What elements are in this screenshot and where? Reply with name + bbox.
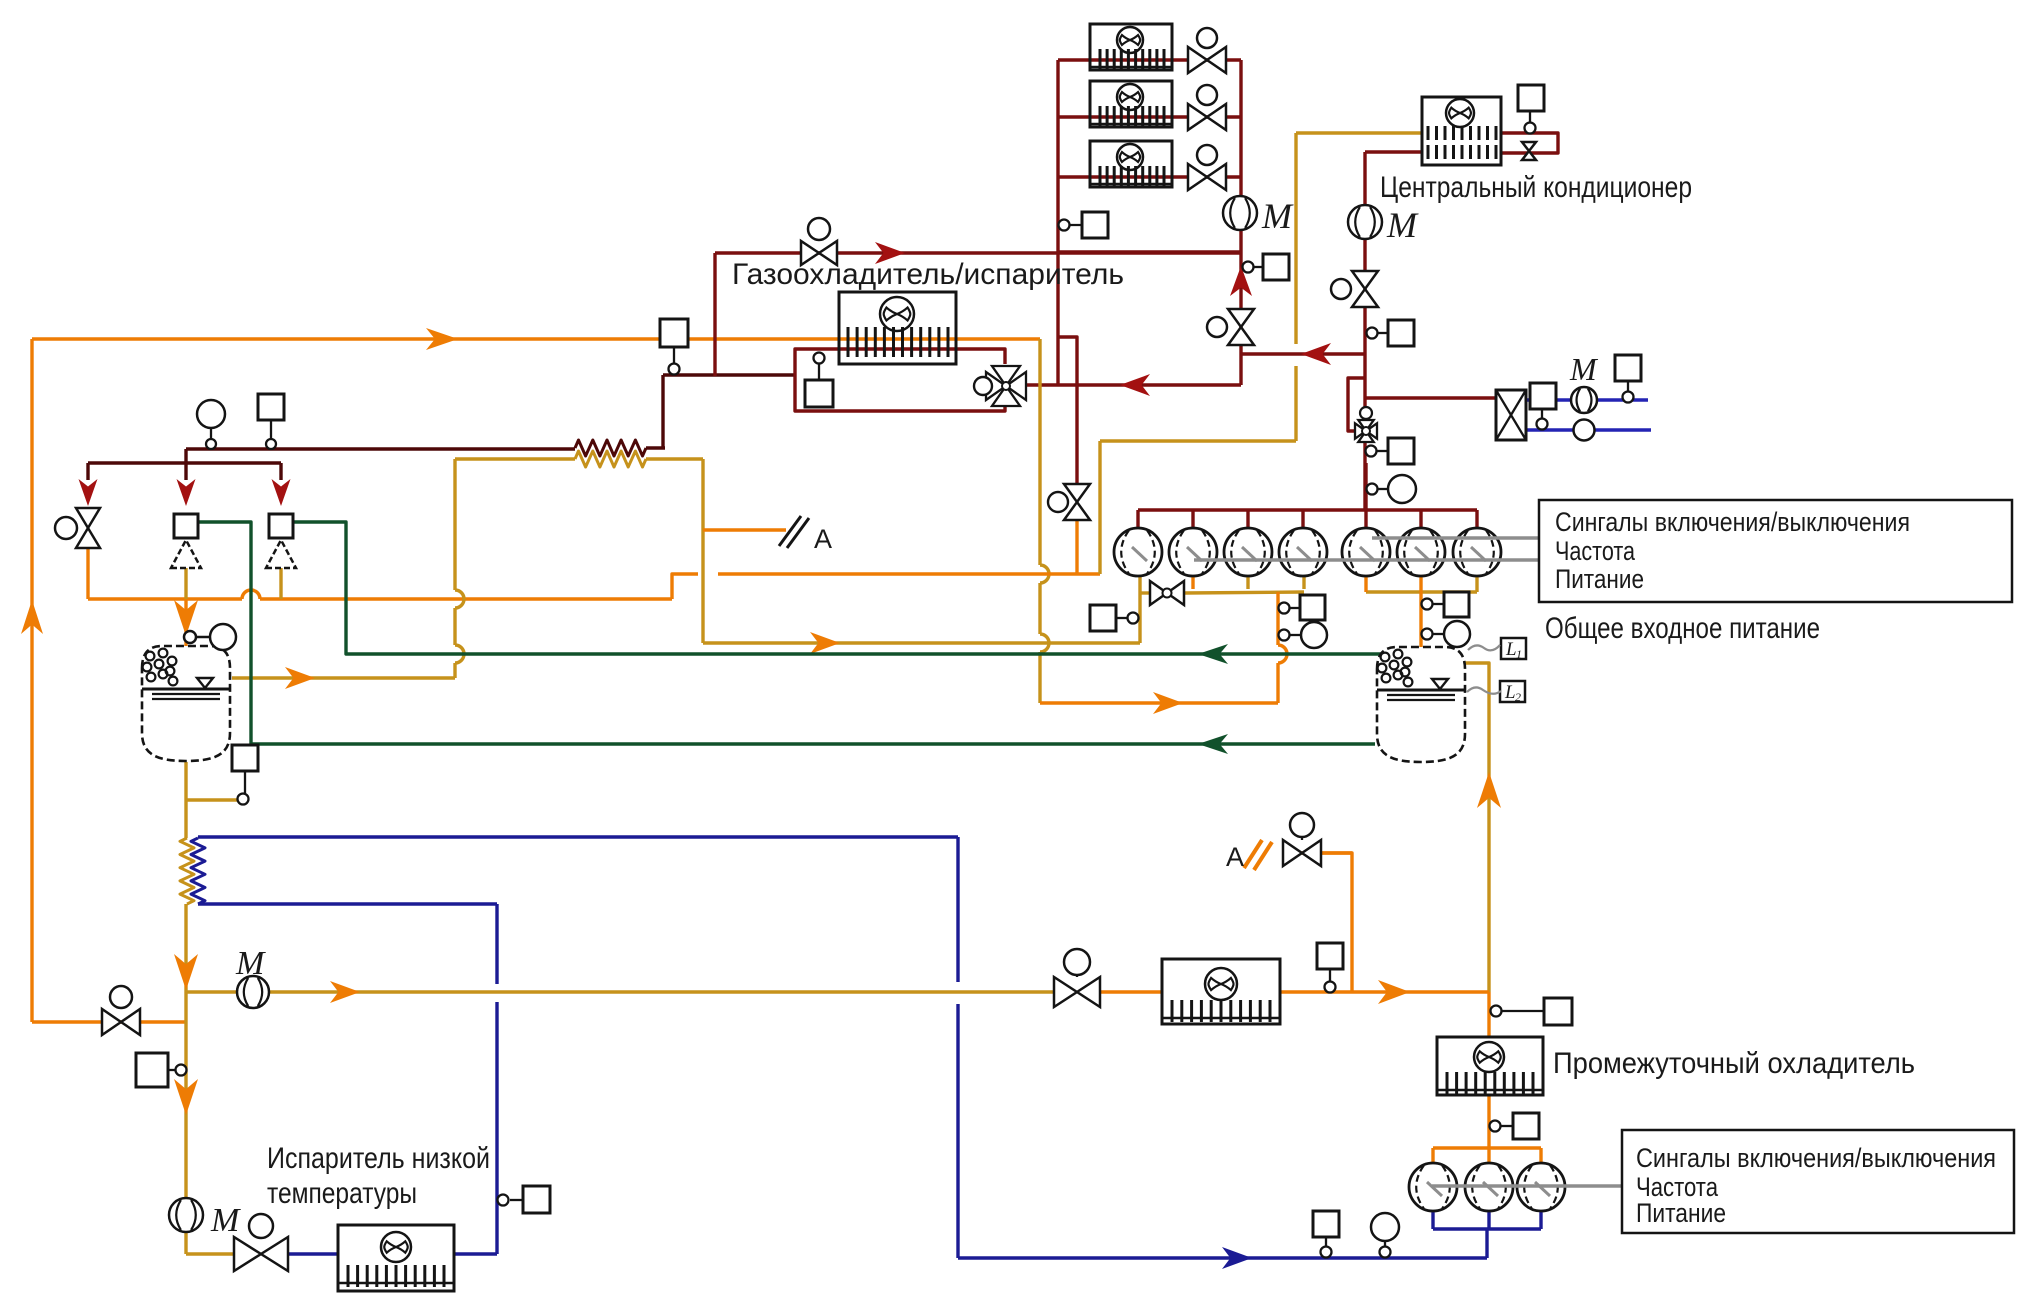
- sensor: sensor below intercooler: [1513, 1113, 1539, 1139]
- motor: water pump M meter: [1571, 387, 1597, 413]
- svg-text:Питание: Питание: [1636, 1198, 1726, 1228]
- sensor: suction sensor left: [1090, 605, 1116, 631]
- heat exchanger: water plate HX: [1496, 390, 1526, 440]
- pipe: orange y=703 to MT suction riser: [1040, 701, 1278, 704]
- valve: MT liquid supply valve y=992: [1054, 977, 1077, 1007]
- sensor: sensor on hot line x=271: [258, 394, 284, 420]
- wire: green arrow left y=744: [1198, 734, 1228, 754]
- pipe: left HP valve drop x=88: [86, 548, 89, 599]
- pipe: discharge stub x=1248: [1246, 510, 1249, 528]
- heat exchanger: fan coil unit 2: [1090, 81, 1172, 127]
- pipe: A-bypass upper: orange y=530 with break symbol: [703, 528, 786, 531]
- node: A break symbol lower: [1244, 840, 1262, 868]
- pipe: LT golden main y=992: [186, 990, 1055, 993]
- svg-text:Сингалы включения/выключения: Сингалы включения/выключения: [1555, 507, 1910, 537]
- svg-text:Питание: Питание: [1555, 564, 1644, 594]
- pump: water circulation pump: [1574, 420, 1595, 441]
- pipe: orange feed into vessel1: [184, 599, 187, 646]
- pipe: below intercooler: [1487, 1095, 1490, 1148]
- pipe: branch to bottom sensor: [186, 798, 238, 801]
- heat exchanger: central conditioner coil: [1422, 97, 1501, 165]
- heat exchanger: fan coil unit 3: [1090, 141, 1172, 187]
- motor: central AC pump M: [1348, 205, 1382, 239]
- pipe: EV3 outlet x=281: [279, 568, 282, 599]
- pipe: parallel comp suction manifold: [1431, 1211, 1434, 1229]
- wire: arrow left on y=354: [1301, 343, 1331, 365]
- sensor: fan-coil bank sensor: [1082, 212, 1108, 238]
- pipe: golden drop from main line x=1040: [1038, 339, 1041, 565]
- pipe: vessel1 gas outlet y=678: [232, 676, 455, 679]
- pipe: vertical x=663 up to y=375: [661, 375, 664, 448]
- pipe: water supply blue y=400: [1526, 398, 1648, 401]
- pipe: navy y=904 return to IHX: [198, 902, 497, 905]
- sensor: sensor right of subcooler: [1317, 943, 1343, 969]
- pipe: x=1490 into intercooler: [1487, 992, 1490, 1038]
- pipe: jog x=1077: [1058, 337, 1077, 385]
- pipe: orange y=992 HX to intercooler riser: [1280, 990, 1489, 993]
- compressor: parallel LT comp A: [1409, 1163, 1457, 1211]
- sensor: sensor on discharge riser: [1388, 438, 1414, 464]
- svg-text:L: L: [1505, 639, 1517, 660]
- sensor: sensor on x=1421 drop: [1444, 592, 1469, 617]
- valve: central AC 3-way: [1352, 271, 1378, 289]
- gauge: indicator on discharge riser: [1388, 475, 1416, 503]
- wire: big arrow up x=1489: [1477, 772, 1501, 808]
- label: lower control box: [1622, 1130, 2014, 1233]
- pipe: discharge stub x=1138: [1136, 510, 1139, 528]
- check valve arrow 3: [272, 479, 291, 506]
- svg-text:M: M: [210, 1202, 241, 1239]
- pipe: y=252 bottom header of fan coils: [1058, 250, 1241, 253]
- wire: big arrow down x=186 (2): [174, 1079, 198, 1115]
- heat exchanger: fan coil unit 1: [1090, 24, 1172, 70]
- valve: 4-way valve at gas cooler outlet: [986, 372, 1006, 400]
- expansion valve EV2: solenoid + nozzle: [174, 514, 198, 538]
- sensor: sensor on x=1278: [1300, 595, 1325, 620]
- wire: hop x=1278 over green y=654: [1278, 645, 1287, 663]
- svg-text:2: 2: [1515, 690, 1521, 704]
- zigzag: LT internal HX golden side: [180, 838, 194, 904]
- pipe: check valve drop x=88: [86, 463, 89, 480]
- heat exchanger: gas cooler / evaporator: [839, 292, 956, 364]
- pipe: orange y=992 valve to HX: [1099, 990, 1162, 993]
- check valve arrow 2: [177, 479, 196, 506]
- pipe: green line EV3 from vessel2 (y=654): [293, 522, 1384, 654]
- svg-text:Сингалы включения/выключения: Сингалы включения/выключения: [1636, 1143, 1996, 1173]
- pipe: fan-coil right vertical x=1241: [1239, 60, 1242, 385]
- svg-text:A: A: [1226, 842, 1244, 872]
- pipe: vessel2 right outlet: [1465, 663, 1489, 992]
- pipe: orange y=574 right of gap: [718, 572, 1100, 575]
- valve: gas line valve (Газоохладитель): [801, 241, 819, 265]
- svg-text:M: M: [235, 945, 266, 982]
- pipe: far-left orange riser x=32: [30, 339, 33, 1022]
- pipe: vertical x=1100 up: [1098, 441, 1101, 574]
- valve: orange/LT link valve x=121: [102, 1009, 121, 1035]
- pipe: comp3 stub: [1246, 576, 1249, 589]
- pipe: A-valve drop x=1352: [1284, 851, 1352, 854]
- pipe: golden riser x=455: [453, 663, 456, 678]
- pipe: EV2 outlet x=186: [184, 568, 187, 599]
- wire: arrow right on y=643: [810, 632, 840, 654]
- pipe: fan coil 2 line: [1058, 115, 1241, 118]
- pipe: vertical x=1278 down: [1276, 592, 1279, 645]
- wire: hop of x=1040 over y=643: [1040, 634, 1049, 652]
- sensor: sensor on LT liquid line: [136, 1053, 168, 1087]
- pipe: bypass valve to y=574 x=1077: [1075, 518, 1078, 574]
- pipe: compressor discharge header y=510: [1138, 508, 1477, 511]
- wire: flow arrow up on left riser: [21, 600, 43, 634]
- svg-text:L: L: [1504, 682, 1516, 703]
- pipe: HP line y=385 from 4-way valve to x=1241: [1025, 383, 1241, 386]
- valve: suction service valve comp1-2: [1140, 591, 1149, 594]
- compressor: parallel LT comp C: [1517, 1163, 1565, 1211]
- pipe: parallel comp top header y=1148: [1433, 1146, 1541, 1149]
- valve: fan coil 2 valve: [1188, 104, 1207, 130]
- pipe: vessel1 bottom golden: [184, 762, 187, 838]
- compressor: parallel comp 5: [1342, 528, 1390, 576]
- wire: signal line y=538 to control box: [1372, 536, 1539, 539]
- wire: arrow right on y=678: [285, 667, 315, 689]
- pipe: LT valve to evaporator (navy): [288, 1252, 338, 1255]
- pipe: orange y=599 liquid header: [88, 597, 242, 600]
- expansion valve EV3: solenoid + nozzle: [269, 514, 293, 538]
- svg-text:Общее входное питание: Общее входное питание: [1545, 612, 1820, 645]
- pipe: stubs to parallel comps: [1431, 1148, 1434, 1164]
- wire: big arrow down x=186 (1): [174, 954, 198, 990]
- svg-text:температуры: температуры: [267, 1177, 417, 1210]
- sensor: vessel1 bottom sensor: [232, 745, 258, 771]
- pipe: fan-coil left vertical x=1058: [1056, 60, 1059, 385]
- label: L2 level sensor: [1500, 681, 1525, 702]
- pipe: drop to vessel2 x=1421: [1419, 576, 1422, 647]
- label: L1 level sensor: [1501, 638, 1526, 659]
- wire: flow arrow right on main orange line: [426, 328, 458, 350]
- wire: arrow right on y=253: [875, 242, 905, 264]
- pipe: check valve drop x=281: [279, 463, 282, 480]
- pipe: comp5 stub: [1364, 576, 1367, 592]
- wire: arrow right on y=992 right: [1378, 980, 1410, 1004]
- compressor: MT comp 2: [1169, 528, 1217, 576]
- gauge: indicator on x=1421 drop: [1444, 621, 1470, 647]
- pipe: comp7 stub: [1475, 576, 1478, 592]
- motor: LT line flow meter M: [237, 976, 269, 1008]
- zigzag: internal HX hot side: [575, 440, 646, 456]
- zigzag: internal HX cold side: [575, 451, 646, 467]
- pipe: golden y=457 to corner x=703: [646, 457, 703, 460]
- pipe: discharge stub x=1193: [1191, 510, 1194, 528]
- pipe: golden y=133 central AC to riser: [1296, 131, 1422, 134]
- pipe: y=354 central AC return: [1241, 352, 1366, 355]
- pipe: navy evaporator outlet riser x=497: [454, 1252, 497, 1255]
- pipe: comp2 stub: [1191, 576, 1194, 589]
- wire: hop of y=599 over green x=251: [242, 590, 260, 599]
- wire: arrow right on y=703: [1153, 692, 1183, 714]
- valve: flash-gas bypass valve x=1077: [1064, 484, 1090, 502]
- svg-text:M: M: [1569, 351, 1599, 387]
- pipe: check valve drop x=186: [184, 463, 187, 480]
- pipe: green line EV2 from vessel2 (y=744): [198, 522, 1375, 744]
- valve: fan coil 3 valve: [1188, 164, 1207, 190]
- valve: central AC loop service valve: [1522, 142, 1536, 151]
- vessel: MT receiver (vessel 1): [142, 646, 230, 761]
- heat exchanger: subcooler on y=992: [1162, 959, 1280, 1024]
- compressor: MT comp 1: [1114, 528, 1162, 576]
- wire: signal line y=560 to control box: [1194, 558, 1539, 561]
- pipe: horizontal y=375 to gas-cooler loop: [663, 373, 795, 376]
- vessel: LT receiver (vessel 2): [1377, 647, 1465, 762]
- gauge: indicator on navy line: [1371, 1213, 1399, 1241]
- pipe: LT liquid to expansion valve: [186, 1252, 234, 1255]
- pipe: central AC riser x=1365: [1363, 152, 1366, 510]
- valve: 3-way on fan-coil riser: [1228, 309, 1254, 327]
- pipe: LT liquid drop continues: [184, 904, 187, 1254]
- sensor: sensor above intercooler: [1544, 998, 1572, 1025]
- wire: arrow right on y=992 left: [330, 981, 360, 1003]
- pipe: central AC right loop: [1501, 133, 1558, 153]
- pipe: connector x=186 between y445 and y457: [184, 449, 187, 463]
- gauge: vessel1 relief indicator: [195, 636, 210, 639]
- svg-text:Газоохладитель/испаритель: Газоохладитель/испаритель: [732, 258, 1124, 291]
- sensor: sensor on navy line: [1313, 1211, 1339, 1237]
- pipe: parallel comps header y=588: [1366, 590, 1477, 593]
- sensor: central AC riser sensor: [1388, 320, 1414, 346]
- pipe: suction header y=589: [1185, 592, 1304, 593]
- compressor: parallel comp 6: [1397, 528, 1445, 576]
- svg-text:1: 1: [1516, 647, 1522, 661]
- pipe: comp1 suction riser x=1140: [1138, 577, 1141, 643]
- node: A break symbol upper: [779, 516, 801, 546]
- pipe: golden drop x=703: [701, 459, 704, 643]
- sensor: sensor on main orange line x=674: [660, 319, 688, 347]
- svg-text:A: A: [814, 524, 832, 554]
- svg-text:Испаритель низкой: Испаритель низкой: [267, 1142, 490, 1175]
- pipe: MT suction line y=643: [703, 641, 1140, 644]
- pipe: x=1077 down to bypass valve: [1075, 385, 1078, 486]
- pipe: golden y=441: [1100, 439, 1296, 442]
- pipe: main orange line from far-left riser to gas cooler (y=339): [32, 337, 1040, 340]
- wire: navy arrow right y=1258: [1222, 1247, 1252, 1269]
- pipe: discharge riser x=1366: [1364, 463, 1367, 528]
- pipe: fan coil 1 line: [1058, 58, 1241, 61]
- wire: big arrow down into vessel1: [174, 600, 198, 636]
- svg-text:M: M: [1386, 205, 1419, 245]
- pipe: gas cooler loop rectangle: [795, 349, 1005, 375]
- gauge: indicator on x=1278: [1301, 622, 1327, 648]
- heat exchanger: intermediate cooler: [1437, 1037, 1543, 1095]
- valve: LT expansion valve: [234, 1237, 261, 1271]
- wire: arrow left on y=385: [1120, 374, 1150, 396]
- wire: hop of x=1040 over y=574: [1040, 565, 1049, 583]
- wire: arrow up on x=1241: [1230, 266, 1252, 296]
- pipe: discharge stub x=1421: [1419, 510, 1422, 528]
- sensor: central AC loop sensor: [1518, 85, 1544, 111]
- motor: fan-coil pump M: [1223, 196, 1257, 230]
- svg-text:M: M: [1261, 196, 1294, 236]
- valve: fan coil 1 valve: [1188, 47, 1207, 73]
- pipe: vertical x=715 from y=253: [713, 253, 716, 376]
- label: upper control box: [1539, 500, 2012, 602]
- valve: hot-gas defrost valve A: [1283, 840, 1302, 866]
- compressor: MT comp 3: [1224, 528, 1272, 576]
- pipe: discharge stub x=1477: [1475, 510, 1478, 528]
- pipe: comp4 stub: [1302, 576, 1305, 589]
- pipe: navy bottom y=1258: [958, 1256, 1487, 1259]
- sensor: water line sensor 1: [1530, 383, 1556, 409]
- pipe: fan coil 3 line: [1058, 175, 1241, 178]
- valve: 4-way reversing valve on riser: [1355, 423, 1366, 438]
- sensor: water line sensor 2: [1615, 355, 1641, 381]
- wire: hop x=455 over y=654: [455, 645, 464, 663]
- compressor: parallel LT comp B: [1465, 1163, 1513, 1211]
- pipe: branch to water HX y=398: [1365, 396, 1496, 399]
- pipe: discharge stub x=1303: [1301, 510, 1304, 528]
- pipe: gas-cooler top line y=253: [715, 251, 1241, 254]
- pipe: hot gas line y=445 to internal HX: [186, 447, 575, 450]
- wire: hop x=455 over y=599: [455, 590, 464, 608]
- svg-text:Частота: Частота: [1555, 536, 1636, 566]
- compressor: parallel comp 7: [1453, 528, 1501, 576]
- pipe: golden riser x=1296 to central AC: [1294, 133, 1297, 344]
- pipe: navy suction top y=837: [198, 835, 958, 838]
- pipe: bypass jog to 4-way valve: [1348, 378, 1365, 431]
- pipe: internal HX dark segment to x=663: [646, 446, 665, 449]
- pipe: step up x=672: [672, 574, 698, 599]
- valve: HP regulating valve left: [76, 508, 100, 528]
- pipe: check-valve manifold y=457: [88, 461, 281, 464]
- sensor: gas cooler loop sensor: [805, 380, 833, 407]
- svg-text:Центральный кондиционер: Центральный кондиционер: [1380, 171, 1692, 204]
- sensor: sensor on evaporator riser: [523, 1186, 550, 1213]
- compressor: MT comp 4: [1279, 528, 1327, 576]
- heat exchanger: LT evaporator: [338, 1225, 454, 1291]
- pipe: water return blue y=430: [1526, 428, 1651, 431]
- wire: green arrow left y=654: [1198, 644, 1228, 664]
- zigzag: LT internal HX navy side: [191, 838, 205, 904]
- pipe: orange low line to LT valve (y=1022): [32, 1020, 186, 1023]
- svg-text:Промежуточный охладитель: Промежуточный охладитель: [1553, 1047, 1915, 1080]
- gauge: pressure gauge on hot line: [197, 400, 225, 428]
- wire: signal line y=1186 to control box: [1432, 1184, 1622, 1187]
- pipe: navy downcomer x=958: [956, 837, 959, 982]
- pipe: golden y=456 to internal HX: [455, 457, 575, 460]
- check valve arrow 1: [79, 479, 98, 506]
- motor: LT sight glass M: [169, 1198, 203, 1232]
- pipe: central AC supply y=152: [1365, 150, 1422, 153]
